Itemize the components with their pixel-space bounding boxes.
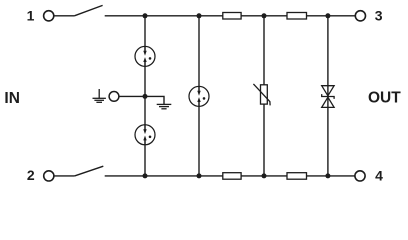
wire center terminal to branch1 <box>119 95 145 97</box>
junction branch1 center node <box>143 94 148 99</box>
ground symbol (earth at branch1 center) <box>157 104 172 108</box>
svg-text:4: 4 <box>375 168 383 184</box>
wire branch3 upper <box>263 16 265 85</box>
resistor top R1 <box>223 13 241 20</box>
wire branch1 lower <box>144 145 146 176</box>
junction top rail / branch2 <box>197 13 202 18</box>
wire terminal1 to switch <box>54 15 74 17</box>
varistor RV1 body <box>261 85 268 104</box>
wire center node to earth <box>145 96 164 104</box>
svg-text:2: 2 <box>27 167 35 183</box>
resistor bottom R3 <box>223 173 241 180</box>
junction bottom rail / branch1 <box>143 173 148 178</box>
terminal 1 <box>44 11 54 21</box>
terminal 2 <box>44 171 54 181</box>
top rail wire <box>105 15 356 17</box>
varistor RV1 diagonal stroke <box>253 84 270 106</box>
svg-text:IN: IN <box>4 90 20 107</box>
switch bottom disconnect blade <box>75 166 104 176</box>
junction top rail / branch3 <box>262 13 267 18</box>
center terminal (ground terminal circle) <box>109 92 119 102</box>
svg-text:1: 1 <box>27 8 35 24</box>
gas discharge tube F1 (top) <box>135 46 155 66</box>
junction top rail / branch1 <box>143 13 148 18</box>
wire branch2 upper <box>198 16 200 87</box>
junction bottom rail / branch3 <box>262 173 267 178</box>
bottom rail wire <box>105 175 356 177</box>
wire branch3 lower <box>263 104 265 176</box>
wire branch2 lower <box>198 106 200 175</box>
terminal 4 <box>355 171 365 181</box>
TVS suppressor diode D1 (bidirectional) <box>322 86 334 108</box>
ground symbol (floating earth, left of center terminal) <box>93 89 106 102</box>
svg-text:OUT: OUT <box>368 89 401 106</box>
junction bottom rail / branch2 <box>197 173 202 178</box>
junction bottom rail / branch4 <box>325 173 330 178</box>
svg-text:3: 3 <box>375 8 383 24</box>
wire branch4 <box>327 16 329 176</box>
wire branch1 upper <box>144 16 146 47</box>
switch top disconnect blade <box>74 5 102 15</box>
resistor bottom R4 <box>287 173 307 180</box>
gas discharge tube F3 <box>189 86 209 106</box>
gas discharge tube F2 (bottom) <box>135 125 155 145</box>
resistor top R2 <box>287 13 307 20</box>
wire branch1 middle <box>144 66 146 124</box>
wire terminal2 to switch <box>54 175 74 177</box>
terminal 3 <box>355 11 365 21</box>
junction top rail / branch4 <box>325 13 330 18</box>
